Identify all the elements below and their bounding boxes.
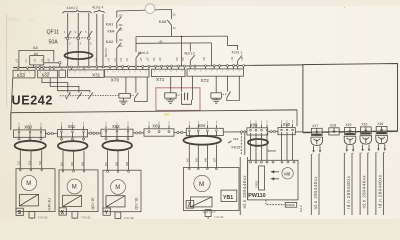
brake rectifier (Y) (106, 196, 125, 207)
circuit breaker QF11 (47, 13, 93, 67)
svg-text:KM4: KM4 (108, 29, 115, 33)
svg-text:Id.n 289440xx: Id.n 289440xx (242, 175, 247, 209)
cable gland ellipse under QF11 (65, 52, 93, 59)
svg-text:M8: M8 (284, 171, 291, 176)
brake solenoid YB1 (221, 190, 237, 201)
svg-text:532: 532 (115, 161, 118, 166)
motor cable wires X82 (105, 150, 129, 170)
switch row 3 contacts (60, 92, 119, 99)
svg-text:QSY 2J: QSY 2J (203, 210, 216, 214)
main cabinet box right (303, 64, 398, 133)
svg-text:PW110: PW110 (248, 193, 265, 199)
cable gland X81 (58, 141, 88, 151)
svg-text:A16: A16 (233, 137, 239, 141)
motor cable wires X84 (187, 145, 217, 168)
svg-text:Id.n 289440xx: Id.n 289440xx (362, 175, 367, 209)
svg-text:PW06: PW06 (286, 203, 295, 207)
lower rail line (11, 110, 297, 113)
terminal strip X31 (68, 70, 105, 78)
bottom connector (S) (29, 212, 35, 220)
svg-text:x32: x32 (42, 73, 50, 79)
arrow tag A16 (228, 137, 239, 143)
contact after R70 (130, 77, 138, 98)
terminal strip X71 (152, 69, 186, 82)
inline connector X18 (322, 123, 344, 135)
svg-text:X89: X89 (250, 123, 258, 128)
svg-text:KA15: KA15 (232, 146, 241, 150)
cable tag 41m1 4 (92, 6, 103, 10)
svg-text:KA2: KA2 (106, 39, 114, 44)
svg-text:X82: X82 (112, 124, 120, 129)
svg-text:KA5: KA5 (159, 19, 167, 24)
terminal strip X89 (247, 123, 268, 136)
svg-text:A3: A3 (33, 46, 38, 50)
bottom connector (Z) (205, 210, 211, 219)
svg-text:X81: X81 (68, 124, 76, 129)
bottom connector (X) (72, 212, 78, 219)
svg-text:536: 536 (126, 161, 129, 166)
right rail with contact KA5 (167, 9, 171, 36)
cable with id text under X16 (376, 152, 384, 215)
motor cable wires X80 (18, 150, 42, 168)
terminal strip X81 (58, 124, 88, 141)
svg-text:X80: X80 (24, 125, 32, 130)
junction wire at 181.5 (181, 36, 183, 66)
contact 41m1.2 (184, 43, 195, 66)
cable with id text under X15 (360, 153, 368, 215)
svg-text:531: 531 (105, 161, 108, 166)
cable gland X82 (102, 141, 132, 151)
brake rectifier (Z) (191, 197, 213, 207)
svg-text:7-X4 1E: 7-X4 1E (214, 215, 224, 219)
PW110 inner terminals (250, 161, 296, 163)
motor unit Y box (103, 170, 141, 212)
svg-text:X31: X31 (92, 72, 101, 77)
svg-text:YB1: YB1 (223, 195, 233, 201)
motor unit Z box (183, 168, 239, 211)
bus to strip ticks row1 (18, 67, 243, 71)
plug X19 (344, 123, 356, 152)
bottom connector (Y) (115, 212, 121, 219)
plug X17 (311, 124, 323, 153)
svg-text:': ' (344, 7, 345, 13)
label Y (103, 208, 110, 216)
brake rectifier (S) (20, 194, 39, 206)
wire drop row2 right (211, 43, 213, 66)
motor unit S box (16, 169, 55, 212)
bracket over QF11 cable (62, 10, 91, 13)
wire loop under X70 (135, 77, 148, 102)
svg-text:41m1.2: 41m1.2 (184, 52, 195, 56)
svg-text:4mm²: 4mm² (268, 149, 278, 153)
cable with id text under X17 (311, 154, 319, 215)
wires X32 to switch row (42, 78, 90, 93)
main terminal bus (13, 65, 303, 68)
terminal strip X32 (38, 70, 58, 79)
terminal strip X80 (14, 125, 46, 141)
bracket over feeder cable (94, 10, 105, 13)
lamp (145, 4, 155, 14)
label S (16, 208, 23, 216)
terminal strip X84 (186, 123, 223, 136)
svg-text:X18: X18 (330, 123, 336, 127)
svg-text:X16: X16 (377, 122, 383, 126)
svg-text:QF11: QF11 (47, 30, 60, 36)
svg-text:KA1: KA1 (106, 21, 114, 26)
svg-text:A4: A4 (34, 52, 38, 56)
enclosure left edge (10, 113, 12, 131)
svg-text:7-X4 1E: 7-X4 1E (38, 216, 48, 220)
fan motor M8 (282, 168, 293, 179)
svg-text:516: 516 (39, 160, 42, 165)
cable gland X84 (183, 136, 221, 145)
wire A4 to terminal (44, 62, 61, 68)
resistor 150 ohm (255, 166, 265, 190)
cable with id text under X19 (344, 153, 352, 215)
right stub of lower rail (296, 110, 298, 126)
svg-text:J03: J03 (119, 29, 124, 32)
contact 41m1.5 (136, 37, 149, 67)
ground under R72 (212, 98, 220, 103)
plug X16 (371, 122, 387, 151)
pencil tick (65, 92, 70, 98)
svg-text:G4N 3U: G4N 3U (48, 198, 52, 211)
svg-text:150Ω: 150Ω (255, 180, 259, 188)
resistor R71 (165, 93, 176, 98)
motor unit X box (59, 170, 98, 212)
svg-text:50A: 50A (49, 39, 59, 45)
stub numbers (312, 152, 386, 156)
cable gland X89 (248, 139, 268, 146)
wires X89 to PW110 (250, 129, 268, 160)
svg-text:X72: X72 (201, 78, 210, 83)
ground under R71 (166, 98, 174, 103)
svg-text:J03: J03 (119, 39, 124, 42)
svg-text:J04: J04 (119, 24, 124, 27)
wires X84-X89 gap down (241, 133, 245, 155)
terminal strip X90 (278, 122, 295, 135)
svg-text:546: 546 (205, 157, 208, 162)
svg-text:521: 521 (60, 161, 63, 166)
wire row 1 (136, 35, 228, 38)
svg-text:Z: Z (188, 203, 191, 209)
left rail with contacts KA1 KM4 KA2 (117, 11, 121, 66)
terminal strip X72 (187, 69, 244, 83)
svg-text:Id.n 289440xx: Id.n 289440xx (378, 174, 383, 208)
terminal strip X33 (13, 70, 35, 79)
svg-text:M: M (115, 185, 120, 191)
box A4 (30, 52, 44, 67)
wire number tags above bus (17, 56, 244, 62)
svg-text:513: 513 (28, 160, 31, 165)
svg-text:J03: J03 (119, 15, 124, 18)
svg-text:X70: X70 (111, 77, 120, 82)
scan smudge top-left (7, 17, 19, 21)
svg-text:526: 526 (81, 161, 84, 166)
wire row 2 (136, 42, 212, 44)
motor M (S) (21, 175, 36, 190)
svg-text:QSY 2E: QSY 2E (135, 197, 139, 210)
arrows airflow (270, 170, 279, 180)
paper edge line left (5, 14, 7, 108)
svg-text:x33: x33 (17, 73, 25, 79)
label X (59, 208, 66, 216)
wire N with size tag (97, 14, 108, 67)
svg-text:J04: J04 (119, 45, 124, 48)
label Z (186, 201, 194, 209)
terminal strip small (59, 70, 66, 78)
yellow mark (164, 113, 169, 115)
terminal strip X70 (105, 70, 150, 83)
svg-text:6+1.5: 6+1.5 (299, 205, 303, 212)
svg-text:X15: X15 (361, 123, 367, 127)
dashed link to PW06 (266, 200, 285, 205)
wire loop A3 (19, 46, 54, 67)
cable tag 41m1 2 (67, 6, 78, 10)
svg-text:X71: X71 (156, 77, 165, 82)
svg-text:41m1.1: 41m1.1 (232, 50, 243, 54)
svg-text:X19: X19 (345, 123, 351, 127)
contact loop under X72 (223, 76, 240, 101)
lower bus gap segments with terminals (45, 130, 303, 134)
cable gland X80 (15, 141, 46, 151)
filter C71 (176, 93, 191, 105)
svg-text:Z-X4 1E: Z-X4 1E (124, 216, 134, 219)
wires into red box (171, 76, 193, 100)
svg-text:Id.n 289440xx: Id.n 289440xx (313, 176, 318, 210)
svg-text:x38: x38 (159, 40, 164, 43)
svg-text:UE242: UE242 (12, 94, 54, 108)
svg-text:M: M (26, 181, 31, 187)
highlight red box (156, 88, 200, 111)
terminal strip X83 (144, 124, 174, 137)
heater unit PW110 box (248, 160, 298, 200)
svg-text:547: 547 (214, 157, 217, 162)
pin numbers left rail (119, 15, 124, 48)
label PW06 (285, 202, 296, 207)
svg-text:X84: X84 (198, 123, 206, 128)
bus terminal circles (17, 65, 244, 69)
svg-text:41m1 2: 41m1 2 (67, 6, 78, 10)
cable with id text under X84 (240, 157, 247, 215)
resistor R72 (211, 76, 222, 98)
wires X90 to PW110 (281, 129, 294, 160)
motor M (Y) (111, 180, 126, 195)
ground under R70 (119, 98, 127, 105)
svg-text:Id.n 289440xx: Id.n 289440xx (346, 175, 351, 209)
tiny pin marks inside strips row1 (16, 70, 239, 73)
svg-text:M: M (72, 185, 77, 191)
svg-text:41m1 4: 41m1 4 (92, 6, 103, 10)
control ladder top wire (117, 9, 172, 11)
brake rectifier (X) (63, 195, 82, 206)
motor cable wires X81 (60, 151, 84, 170)
svg-text:X17: X17 (312, 124, 318, 128)
svg-text:7-X4 1E: 7-X4 1E (81, 216, 91, 220)
svg-text:512: 512 (18, 160, 21, 165)
svg-text:522: 522 (71, 161, 74, 166)
plug X15 (355, 123, 371, 152)
svg-text:542: 542 (196, 157, 199, 162)
svg-text:M: M (199, 181, 204, 188)
terminal strip X82 (101, 124, 133, 140)
motor M (X) (67, 179, 82, 194)
resistor R70 (119, 77, 130, 98)
contact 41m1.1 (228, 36, 243, 65)
connector line to plugs (303, 132, 398, 133)
svg-text:541: 541 (187, 157, 190, 162)
svg-text:50mm²: 50mm² (104, 48, 108, 57)
bottom tiny tags (38, 215, 224, 220)
motor M (Z) (194, 175, 210, 191)
svg-text:QSY 2E: QSY 2E (91, 197, 95, 210)
